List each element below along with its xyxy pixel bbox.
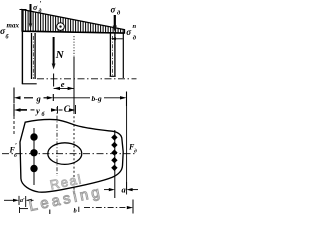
watermark: [27, 171, 104, 215]
left support edge: [21, 31, 23, 84]
vertical dotted centroid through plan: [73, 112, 75, 196]
force N arrow: [52, 37, 56, 70]
svg-text:max: max: [7, 22, 20, 30]
stress diagram hatched trapezoid: [22, 10, 125, 34]
svg-text:b-g: b-g: [92, 94, 102, 103]
plan horizontal center line: [2, 153, 137, 155]
label sigma_d^n (right end): [126, 23, 137, 41]
dimension row g / b-g: [14, 88, 127, 107]
svg-text:′: ′: [15, 142, 17, 150]
svg-text:′: ′: [40, 0, 42, 8]
svg-text:σ: σ: [126, 27, 132, 37]
arrow sigma_d (right, down into strip): [113, 15, 117, 32]
leader arrow for sigma_d^n: [111, 37, 123, 40]
right extension line: [126, 106, 128, 190]
bottom-left corner of b row: [20, 207, 29, 213]
svg-text:n: n: [133, 23, 137, 30]
svg-text:б: б: [42, 111, 46, 118]
bottom-left dimension a': [4, 196, 34, 207]
dimension e: [54, 79, 74, 90]
left dashed extension to plan: [13, 116, 15, 136]
dimension row y_d / C: [14, 104, 76, 118]
label sigma_d: [111, 5, 122, 17]
right support bolt lines: [110, 34, 116, 77]
svg-text:д: д: [117, 10, 121, 17]
right bolts: [111, 130, 117, 198]
svg-text:a′: a′: [20, 198, 25, 204]
label F_d right: [128, 143, 137, 155]
bottom dimension line b: [50, 200, 133, 215]
label F'_b left: [9, 142, 18, 159]
top-left corner serif: [20, 9, 27, 11]
left bolts: [30, 128, 37, 185]
bottom-right dimension a: [104, 182, 138, 195]
label sigma'_d: [33, 0, 42, 15]
vertical dash-dot through oval left: [56, 107, 58, 176]
svg-text:N: N: [55, 49, 65, 61]
plan outline: [20, 120, 123, 193]
svg-text:b: b: [74, 208, 78, 215]
N axis cross tick: [53, 74, 55, 87]
label sigma_b_max: [0, 22, 19, 41]
svg-text:e: e: [61, 79, 65, 89]
svg-text:σ: σ: [111, 5, 117, 15]
svg-text:б: б: [6, 34, 10, 41]
centroid circle on stress diagram: [57, 23, 65, 31]
svg-text:д: д: [133, 35, 137, 42]
right edge line below strip: [122, 33, 124, 78]
svg-text:y: y: [35, 106, 40, 116]
horizontal axis dash-dot: [37, 78, 137, 80]
centroid axis vertical: [73, 36, 75, 112]
svg-text:д: д: [39, 8, 42, 15]
oval boss in plan: [48, 143, 82, 165]
svg-text:a: a: [122, 184, 127, 194]
left bolt lines: [32, 33, 36, 79]
svg-text:g: g: [36, 94, 42, 104]
svg-text:σ: σ: [33, 3, 38, 12]
svg-text:д: д: [134, 148, 137, 155]
arrow sigma'_d (left ordinate arrow): [29, 4, 32, 29]
left support foot: [22, 83, 37, 85]
svg-text:б: б: [14, 152, 17, 159]
